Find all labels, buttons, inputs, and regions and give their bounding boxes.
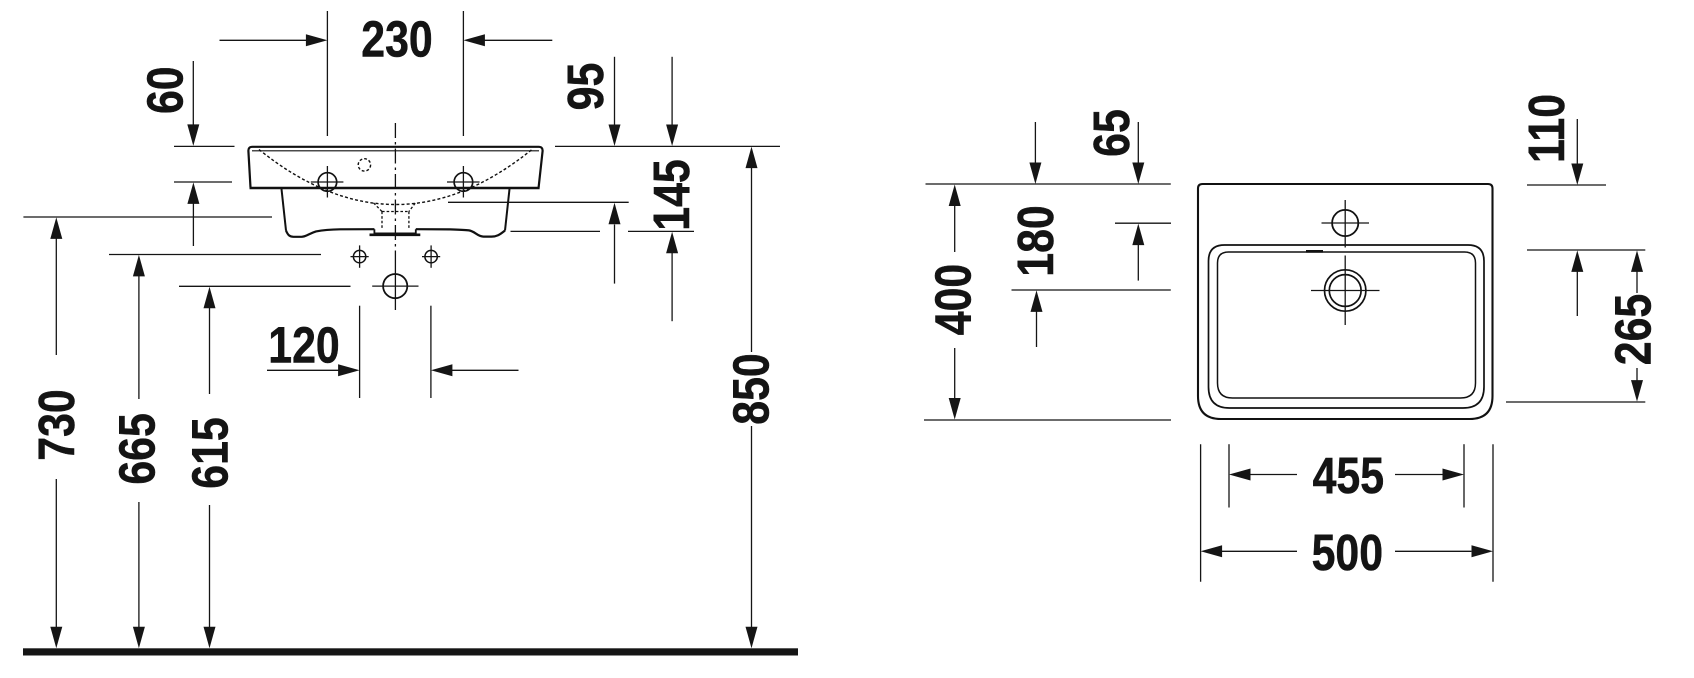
svg-text:60: 60 (136, 66, 193, 114)
svg-text:730: 730 (27, 389, 84, 460)
svg-text:455: 455 (1313, 446, 1384, 503)
svg-text:65: 65 (1082, 109, 1139, 157)
svg-text:850: 850 (722, 353, 779, 424)
svg-text:615: 615 (181, 417, 238, 488)
svg-text:400: 400 (924, 264, 981, 335)
svg-text:95: 95 (556, 63, 613, 111)
svg-text:145: 145 (642, 159, 699, 230)
svg-text:265: 265 (1604, 294, 1661, 365)
svg-text:500: 500 (1312, 523, 1383, 580)
svg-text:110: 110 (1517, 94, 1574, 163)
svg-text:665: 665 (108, 413, 165, 484)
svg-text:230: 230 (361, 10, 432, 67)
svg-text:180: 180 (1006, 205, 1063, 276)
svg-text:120: 120 (268, 316, 339, 373)
